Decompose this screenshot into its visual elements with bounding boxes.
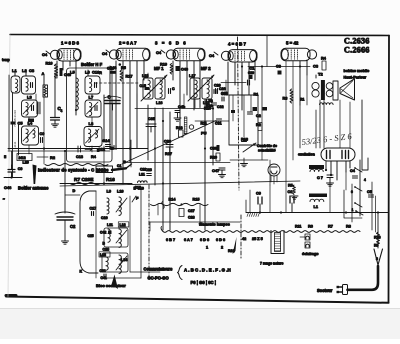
svg-text:L8: L8: [89, 121, 94, 126]
wire pins V5: [285, 61, 287, 212]
svg-text:C1: C1: [250, 67, 255, 71]
wire pins V4: [227, 62, 229, 95]
svg-text:3 = 6 D 6: 3 = 6 D 6: [155, 41, 187, 46]
svg-text:R: R: [99, 70, 102, 75]
field coil excitation: [309, 165, 324, 169]
svg-text:PU: PU: [201, 131, 207, 136]
svg-text:excitation: excitation: [298, 153, 315, 157]
wire mid bus: [8, 148, 148, 150]
svg-text:1 = 6 D 6: 1 = 6 D 6: [61, 41, 79, 46]
svg-text:11111: 11111: [13, 141, 17, 149]
coil L14: [119, 255, 121, 273]
wire speaker to rectifier: [349, 102, 351, 148]
capacitor C25: [169, 89, 171, 94]
svg-text:L11: L11: [107, 223, 113, 227]
tuning indicator tube: [268, 164, 280, 176]
svg-text:C27: C27: [188, 209, 195, 213]
box C2666 seulement: [96, 166, 113, 173]
capacitor C29 blob: [249, 75, 253, 79]
dashed AVC segment: [95, 82, 140, 84]
choke L1 coil: [310, 199, 324, 201]
capacitor in output box: [242, 140, 247, 142]
transformer T2: [312, 82, 319, 89]
frame bottom border: [6, 297, 389, 303]
coil L11: [108, 229, 110, 242]
svg-text:Indicateur de syntonie - C 266: Indicateur de syntonie - C 2666: [38, 168, 106, 173]
svg-text:2 = 6 A 7: 2 = 6 A 7: [119, 41, 137, 46]
svg-text:R16: R16: [106, 177, 115, 183]
resistor R17 under V2: [120, 70, 123, 81]
svg-text:R14: R14: [169, 198, 177, 202]
svg-text:L15: L15: [142, 74, 149, 78]
svg-text:L2: L2: [22, 68, 27, 73]
ground C2: [62, 241, 69, 244]
capacitor C9: [258, 197, 262, 204]
svg-text:R15: R15: [193, 198, 200, 202]
svg-text:A: A: [42, 71, 45, 76]
svg-text:C28: C28: [188, 215, 195, 219]
variable capacitor C2 gang: [57, 217, 73, 220]
svg-text:Commutateurs: Commutateurs: [144, 267, 174, 272]
tube V1 6D6: [57, 49, 81, 61]
tube V3 6D6: [173, 48, 205, 60]
svg-text:C9: C9: [256, 192, 261, 196]
wire mesh left mid: [43, 97, 45, 148]
svg-text:6 B 7: 6 B 7: [166, 238, 175, 242]
capacitor C36 blob: [28, 119, 34, 123]
svg-text:R1: R1: [300, 98, 304, 102]
svg-text:L17: L17: [189, 74, 196, 78]
svg-text:L9: L9: [107, 190, 111, 194]
resistor R17 diagonal AVC: [122, 121, 216, 165]
wire pins V3: [172, 61, 174, 80]
speaker horn: [340, 79, 355, 100]
wire r14 down: [157, 205, 159, 216]
svg-text:3: 3: [376, 257, 378, 261]
wire box to eye: [230, 159, 268, 161]
svg-text:L7: L7: [89, 95, 94, 100]
screened lead thick: [112, 168, 126, 170]
tube V5 42: [281, 48, 310, 60]
coil L5: [76, 78, 78, 110]
svg-text:5 = 42: 5 = 42: [286, 41, 299, 46]
black pointer oscillator: [112, 275, 119, 290]
svg-text:Contrôle de: Contrôle de: [257, 144, 277, 148]
ground mid: [243, 158, 245, 164]
svg-text:C21: C21: [100, 269, 106, 273]
oscillator block outline: [80, 191, 89, 273]
svg-text:MF 1: MF 1: [154, 66, 164, 71]
wire HF verticals: [87, 70, 89, 76]
svg-text:C17: C17: [90, 207, 97, 211]
svg-text:C28: C28: [103, 248, 110, 252]
coil L3 box: [22, 100, 38, 117]
svg-text:C5: C5: [367, 190, 372, 194]
coil L6 / C19 box: [85, 76, 100, 94]
coil L12: [119, 229, 121, 247]
wire v4 outputs: [261, 110, 263, 160]
tube V2 6A7: [116, 48, 150, 60]
svg-text:C3: C3: [313, 64, 319, 69]
svg-text:C8: C8: [29, 68, 35, 73]
svg-text:R6: R6: [308, 225, 313, 229]
wire antenna lead left 2: [8, 75, 10, 150]
svg-text:C.2636: C.2636: [344, 37, 370, 46]
ground hatched: [247, 212, 260, 214]
resistor R19c: [170, 64, 173, 75]
wire A node to C4: [43, 76, 45, 85]
svg-text:II: II: [4, 154, 6, 159]
svg-text:C35: C35: [148, 117, 155, 121]
svg-text:R30: R30: [206, 104, 213, 108]
junction dots: [43, 147, 45, 149]
wire mesh hf: [91, 94, 93, 100]
coil L20: [17, 154, 32, 161]
resistor R18: [43, 85, 48, 97]
wire output box verticals: [232, 95, 234, 121]
svg-text:L1: L1: [314, 205, 318, 209]
svg-text:C 7: C 7: [317, 176, 323, 180]
wire antenna lead left: [12, 93, 14, 177]
svg-text:C4: C4: [102, 51, 108, 56]
svg-text:C26: C26: [219, 87, 226, 91]
svg-text:L13: L13: [100, 253, 106, 257]
svg-text:R8: R8: [346, 225, 351, 229]
junction dot V2: [119, 63, 122, 66]
antenna capacitor: [8, 170, 15, 173]
wire antenna bus: [4, 177, 22, 179]
svg-text:R19: R19: [160, 63, 167, 67]
wire R7 bus: [60, 183, 132, 185]
wire mf2 to box: [195, 120, 229, 122]
wire mid bus 2: [135, 108, 213, 110]
hum coil under T2: [320, 103, 334, 105]
wire bus 186 to right: [60, 181, 300, 186]
svg-text:Haut-Parleur: Haut-Parleur: [344, 76, 367, 80]
wire B+ upper: [249, 190, 251, 212]
potentiometer arrow controle: [243, 143, 256, 152]
coil L7 box: [85, 100, 101, 117]
svg-text:C26: C26: [164, 140, 171, 144]
svg-text:sensibilité: sensibilité: [258, 149, 276, 153]
svg-text:42: 42: [242, 237, 246, 241]
svg-text:R11: R11: [201, 122, 207, 126]
svg-text:R33: R33: [176, 126, 183, 130]
resistor R14 wavy: [151, 203, 209, 205]
wire left bus: [18, 124, 20, 155]
svg-text:C.2666: C.2666: [344, 46, 370, 55]
svg-text:6 D 6: 6 D 6: [216, 238, 225, 242]
svg-text:MF 2: MF 2: [201, 66, 211, 71]
svg-text:C29: C29: [248, 71, 254, 75]
svg-text:C23: C23: [146, 168, 152, 172]
coil L9: [107, 198, 109, 214]
svg-text:C: C: [172, 87, 175, 91]
svg-text:C32: C32: [217, 105, 224, 109]
svg-text:7343B 21/10: 7343B 21/10: [13, 110, 17, 127]
Boitier HF enclosure: [67, 68, 113, 162]
wire bottom osc links: [130, 271, 160, 273]
svg-text:C9: C9: [18, 167, 23, 171]
svg-text:R2: R2: [50, 155, 56, 160]
svg-text:C4: C4: [42, 52, 48, 57]
svg-text:C4: C4: [209, 53, 215, 58]
svg-text:4: 4: [364, 178, 366, 182]
capacitor C26: [216, 89, 218, 94]
mains plug: [343, 285, 348, 295]
svg-text:D: D: [73, 189, 76, 193]
capacitor C46c blob: [176, 66, 180, 71]
svg-text:C42: C42: [100, 231, 106, 235]
svg-text:L5: L5: [70, 70, 75, 75]
frame top border: [10, 35, 389, 36]
wire tube2 to mf1: [147, 73, 149, 78]
svg-text:1: 1: [206, 246, 208, 250]
small circle component: [189, 125, 193, 129]
wire switch box: [344, 190, 362, 218]
coil L1: [11, 76, 20, 93]
svg-text:R7: R7: [328, 225, 333, 229]
resistor R19: [54, 64, 57, 78]
resistor wavy indicateur: [45, 164, 108, 166]
svg-text:C46: C46: [181, 68, 188, 72]
wire right bracket: [362, 100, 368, 170]
wire top feed: [266, 36, 268, 67]
svg-text:C1: C1: [117, 164, 121, 168]
frame right border: [388, 36, 391, 303]
wire B+ top: [248, 66, 310, 68]
speaker voice coil: [333, 81, 338, 100]
transformer T core: [271, 231, 284, 254]
svg-text:filaments lampes: filaments lampes: [199, 223, 230, 227]
wire output box: [229, 95, 258, 145]
chassis dashed line mid: [148, 185, 150, 280]
svg-text:Bloc oscillateur: Bloc oscillateur: [96, 283, 126, 288]
svg-text:L4: L4: [28, 121, 33, 126]
marks in HF box bottom: [78, 146, 81, 152]
svg-text:L3: L3: [27, 95, 32, 100]
svg-text:A . B C . D . E . F . G .H: A . B C . D . E . F . G .H: [184, 268, 231, 273]
box L11 L12: [104, 228, 128, 247]
wire mid vertical x131: [130, 140, 132, 167]
tube V4 6B7: [228, 50, 257, 62]
chassis dashed line right: [240, 215, 242, 258]
wire speaker leads: [315, 75, 317, 78]
svg-text:C4: C4: [156, 50, 162, 55]
frame left border: [8, 35, 10, 297]
wire volume bus: [125, 162, 230, 164]
svg-text:éclairage: éclairage: [302, 252, 318, 256]
wire osc to gang: [65, 194, 80, 196]
svg-text:‴: ‴: [2, 198, 5, 202]
svg-text:6 D 6: 6 D 6: [200, 238, 209, 242]
svg-text:L21: L21: [139, 173, 145, 177]
wire long bottom bus: [150, 221, 240, 223]
rectifier tube 25Z5: [321, 148, 355, 161]
chassis dashed line top: [238, 37, 240, 190]
svg-text:P0 ¦ G0 ¦ 0C ¦: P0 ¦ G0 ¦ 0C ¦: [191, 280, 216, 285]
wire right area: [299, 105, 301, 148]
svg-text:25 Z 5: 25 Z 5: [252, 237, 263, 241]
svg-text:R11: R11: [295, 225, 301, 229]
svg-text:C18: C18: [107, 67, 114, 71]
svg-text:2412: 2412: [19, 156, 26, 160]
mains cable: [348, 266, 379, 290]
svg-text:7 range nature: 7 range nature: [260, 262, 283, 266]
wire gang lead: [64, 151, 66, 213]
svg-text:4: 4: [61, 109, 63, 113]
svg-text:Boitier H F: Boitier H F: [81, 62, 103, 67]
svg-text:L10: L10: [117, 190, 124, 194]
svg-text:C20: C20: [214, 84, 221, 88]
svg-text:C8: C8: [288, 190, 293, 194]
svg-text:R3: R3: [283, 97, 288, 101]
junction blob antenna: [11, 122, 16, 125]
filament resistor bus R11 R6 R7 R8: [163, 231, 360, 233]
wire mid verticals: [147, 105, 149, 160]
svg-text:L20: L20: [23, 161, 29, 165]
svg-text:Boitier antenne: Boitier antenne: [18, 186, 49, 191]
svg-text:2: 2: [221, 246, 223, 250]
svg-text:C2: C2: [70, 224, 76, 229]
svg-text:C30: C30: [210, 147, 217, 151]
svg-text:C21: C21: [221, 92, 228, 96]
junction blobs output box: [253, 107, 258, 111]
electrolytic hatch bar: [184, 117, 187, 134]
wire pins V2: [115, 61, 117, 148]
dial lamps: [305, 234, 310, 240]
svg-text:Secteur: Secteur: [317, 288, 333, 293]
svg-text:L16: L16: [156, 101, 163, 105]
svg-text:C46: C46: [4, 185, 12, 190]
svg-text:6 A 7: 6 A 7: [184, 238, 193, 242]
svg-text:R17: R17: [165, 152, 172, 156]
coil L2 / C8 box: [22, 76, 36, 94]
junction blob mid: [123, 160, 126, 163]
resistor R2 small rect: [258, 123, 262, 131]
svg-text:C31: C31: [215, 122, 222, 126]
svg-text:L12: L12: [120, 223, 126, 227]
resistor R5 zigzag: [293, 185, 296, 195]
wire mf coupling: [183, 94, 185, 105]
switch contacts: [359, 160, 361, 216]
resistor R16 funnel: [374, 249, 383, 265]
wire right bus verticals: [377, 213, 379, 232]
antenna downlead wedge: [33, 165, 37, 185]
svg-text:OC-PO-GO: OC-PO-GO: [148, 276, 170, 281]
svg-text:R17: R17: [126, 75, 133, 79]
svg-text:C13: C13: [76, 155, 83, 159]
trimmer in L3 box: [36, 102, 38, 114]
svg-text:R19: R19: [46, 62, 53, 66]
wire pins V1: [56, 61, 58, 78]
svg-text:R5: R5: [121, 66, 126, 70]
coil L10: [119, 197, 121, 215]
wire B+ bus: [245, 200, 247, 213]
svg-text:T2: T2: [318, 72, 323, 77]
svg-text:C10: C10: [101, 216, 108, 220]
wire osc verticals: [95, 191, 97, 273]
transformer T winding: [275, 233, 281, 252]
svg-text:temp: temp: [2, 58, 10, 62]
svg-text:K: K: [80, 270, 83, 274]
svg-text:bobine mobile: bobine mobile: [344, 69, 370, 73]
svg-text:C15: C15: [88, 234, 94, 238]
box L13 L14: [102, 253, 128, 272]
wire tube5 bus: [261, 67, 263, 111]
coil L8 box: [84, 127, 102, 147]
capacitor C8e: [290, 196, 294, 203]
svg-text:L1B: L1B: [206, 99, 213, 103]
svg-text:C9: C9: [40, 132, 45, 136]
coil L4 box: [22, 126, 39, 145]
choke L1 hatched bar: [309, 194, 327, 198]
